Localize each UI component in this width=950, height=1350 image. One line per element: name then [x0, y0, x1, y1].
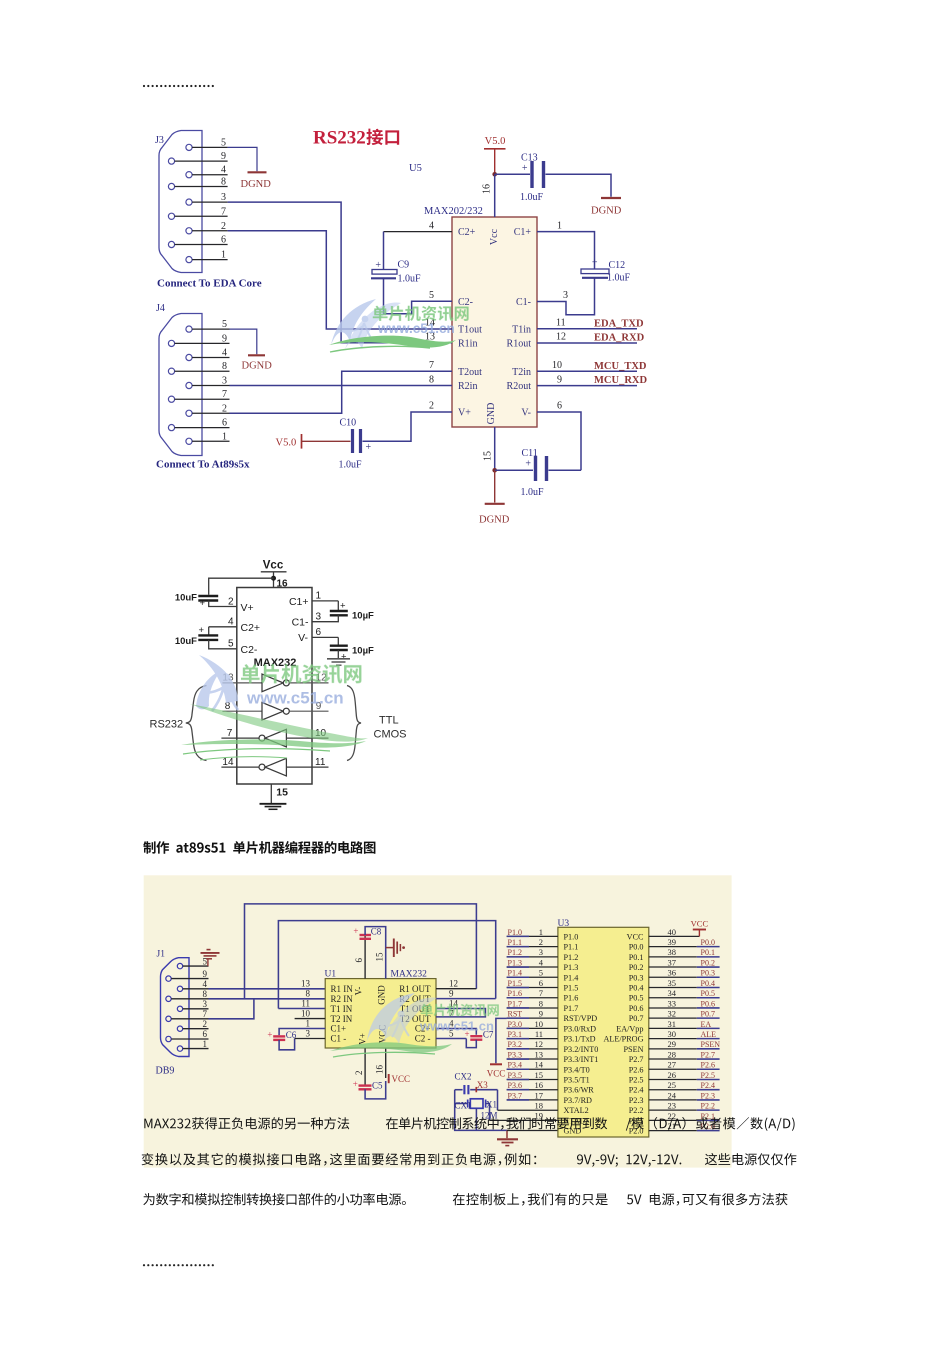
- svg-text:GND: GND: [377, 985, 387, 1005]
- svg-text:P1.0: P1.0: [508, 928, 522, 937]
- svg-text:P1.6: P1.6: [564, 994, 579, 1003]
- svg-text:www.c51.cn: www.c51.cn: [246, 689, 344, 708]
- svg-text:+: +: [522, 163, 528, 174]
- svg-text:1: 1: [222, 431, 227, 442]
- svg-text:+: +: [267, 1029, 272, 1039]
- net label P3.0 / U3 pin 10: [507, 1019, 558, 1029]
- svg-text:25: 25: [668, 1080, 677, 1090]
- svg-text:RS232: RS232: [150, 719, 184, 731]
- svg-text:P0.0: P0.0: [629, 943, 644, 952]
- svg-text:23: 23: [668, 1101, 677, 1111]
- svg-text:1: 1: [557, 220, 562, 231]
- svg-text:P3.3: P3.3: [508, 1050, 522, 1059]
- svg-text:R1out: R1out: [507, 338, 532, 349]
- svg-text:R2out: R2out: [507, 381, 532, 392]
- svg-text:P2.4: P2.4: [701, 1081, 715, 1090]
- net label P0.0 / U3 pin 39: [649, 937, 720, 947]
- svg-text:RST/VPD: RST/VPD: [564, 1014, 598, 1023]
- wire CX2 left loop: [455, 1090, 507, 1131]
- svg-text:12: 12: [449, 979, 458, 989]
- wire U1 pin9 (R2OUT): [436, 998, 496, 1000]
- svg-text:PSEN: PSEN: [623, 1045, 643, 1054]
- IC U1 MAX232: [301, 970, 459, 1049]
- svg-text:5: 5: [203, 956, 208, 966]
- svg-text:+: +: [200, 598, 206, 609]
- svg-text:36: 36: [668, 968, 677, 978]
- paragraph line 2: [142, 1153, 537, 1166]
- svg-text:1.0uF: 1.0uF: [607, 273, 631, 284]
- svg-text:P1.7: P1.7: [508, 999, 522, 1008]
- svg-text:15: 15: [375, 952, 385, 962]
- ground DGND (J4 pin5): [230, 329, 273, 371]
- svg-text:Vcc: Vcc: [263, 560, 284, 572]
- connector J3 (DB9, Connect To EDA Core): [155, 131, 262, 290]
- svg-text:9: 9: [539, 1009, 543, 1019]
- junction Vcc/pin16: [271, 576, 276, 581]
- svg-text:7: 7: [539, 988, 543, 998]
- svg-text:1.0uF: 1.0uF: [521, 487, 545, 498]
- capacitor C9 1.0uF: [371, 232, 421, 285]
- title RS232 interface: [313, 128, 399, 149]
- svg-text:P2.6: P2.6: [629, 1065, 644, 1074]
- svg-text:10uF: 10uF: [175, 636, 197, 647]
- svg-text:15: 15: [483, 451, 494, 461]
- svg-text:P0.2: P0.2: [629, 963, 644, 972]
- net label P3.6 / U3 pin 16: [507, 1080, 558, 1090]
- svg-text:2: 2: [222, 403, 227, 414]
- svg-text:7: 7: [203, 1009, 208, 1019]
- wire GND node to DGND: [494, 470, 496, 502]
- net label P0.3 / U3 pin 36: [649, 968, 720, 978]
- svg-text:DGND: DGND: [242, 361, 273, 372]
- svg-text:P1.3: P1.3: [564, 963, 579, 972]
- svg-text:C2+: C2+: [241, 622, 261, 634]
- svg-text:P2.7: P2.7: [701, 1050, 715, 1059]
- svg-text:P2.4: P2.4: [629, 1086, 644, 1095]
- svg-text:6: 6: [222, 418, 227, 429]
- svg-text:P1.6: P1.6: [508, 989, 522, 998]
- svg-text:P1.7: P1.7: [564, 1004, 579, 1013]
- net label P0.2 / U3 pin 37: [649, 957, 720, 967]
- svg-text:+: +: [353, 1079, 358, 1089]
- net label MCU_RXD (U5 pin9): [537, 375, 647, 386]
- svg-text:V5.0: V5.0: [276, 437, 297, 448]
- wire J4 pin3 to U5 pin8 (R2in): [230, 385, 453, 387]
- ground DGND (bottom): [479, 504, 510, 526]
- svg-text:11: 11: [535, 1029, 543, 1039]
- dotted separator top: [143, 85, 214, 87]
- svg-text:2: 2: [429, 401, 434, 412]
- svg-text:C1+: C1+: [514, 227, 532, 238]
- svg-text:RST: RST: [508, 1010, 523, 1019]
- ground DGND (C13): [591, 198, 622, 217]
- U3 pin 19 (XTAL1): [490, 1111, 558, 1121]
- net label P1.6 / U3 pin 7: [507, 988, 558, 998]
- capacitor C10 1.0uF: [339, 418, 372, 471]
- svg-text:P1.0: P1.0: [564, 932, 579, 941]
- connector J4 (DB9, Connect To At89s5x): [156, 303, 250, 471]
- svg-text:P0.4: P0.4: [701, 979, 715, 988]
- svg-text:11: 11: [301, 999, 310, 1009]
- svg-text:14: 14: [222, 757, 234, 768]
- U3 pin 40 (VCC): [649, 927, 700, 937]
- svg-text:P3.3/INT1: P3.3/INT1: [564, 1055, 599, 1064]
- net label EA / U3 pin 31: [649, 1019, 720, 1029]
- net label PSEN / U3 pin 29: [649, 1039, 720, 1049]
- svg-text:6: 6: [539, 978, 543, 988]
- power VCC (U1 pin16): [386, 1048, 410, 1084]
- svg-text:5: 5: [539, 968, 543, 978]
- svg-text:ALE: ALE: [701, 1030, 717, 1039]
- svg-text:VCC: VCC: [487, 1069, 506, 1079]
- capacitor 10uF (V-): [298, 627, 374, 662]
- svg-text:P3.2: P3.2: [508, 1040, 522, 1049]
- wire U5 pin4 (C2+): [384, 231, 453, 233]
- svg-text:+: +: [198, 625, 204, 636]
- svg-text:J4: J4: [156, 303, 165, 314]
- ground pin15 (schematic2): [260, 784, 289, 809]
- op-amp/transceiver U5 MAX202/232: [409, 163, 537, 427]
- svg-text:V+: V+: [458, 408, 471, 419]
- svg-text:TTL: TTL: [379, 715, 399, 727]
- svg-text:DGND: DGND: [591, 206, 622, 217]
- svg-text:GND: GND: [486, 403, 497, 425]
- svg-text:6: 6: [316, 627, 322, 638]
- svg-text:1: 1: [203, 1039, 208, 1049]
- svg-text:9: 9: [221, 151, 226, 162]
- svg-text:38: 38: [668, 947, 677, 957]
- svg-text:6: 6: [557, 401, 562, 412]
- svg-text:+: +: [592, 258, 598, 269]
- svg-text:10uF: 10uF: [175, 593, 197, 604]
- svg-text:P0.3: P0.3: [629, 973, 644, 982]
- svg-text:P3.1/TxD: P3.1/TxD: [564, 1035, 596, 1044]
- power VCC (U3 pin40): [691, 918, 709, 936]
- svg-text:XTAL2: XTAL2: [564, 1106, 589, 1115]
- svg-text:33: 33: [668, 998, 677, 1008]
- svg-text:R1in: R1in: [458, 338, 477, 349]
- net label P1.5 / U3 pin 6: [507, 978, 558, 988]
- earth ground (crystal): [497, 1130, 518, 1145]
- svg-text:Connect To EDA Core: Connect To EDA Core: [157, 278, 262, 290]
- svg-text:32: 32: [668, 1009, 677, 1019]
- svg-text:P1.5: P1.5: [508, 979, 522, 988]
- wire C13 to DGND: [546, 174, 612, 197]
- svg-text:8: 8: [539, 998, 543, 1008]
- net label P1.2 / U3 pin 3: [507, 947, 558, 957]
- svg-text:P3.6/WR: P3.6/WR: [564, 1086, 595, 1095]
- svg-text:T1 IN: T1 IN: [331, 1004, 353, 1014]
- brace TTL/CMOS (right): [347, 686, 361, 761]
- svg-text:3: 3: [221, 192, 226, 203]
- svg-text:T2in: T2in: [512, 367, 531, 378]
- svg-text:P3.1: P3.1: [508, 1030, 522, 1039]
- net label P2.5 / U3 pin 26: [649, 1070, 720, 1080]
- svg-text:P3.4/T0: P3.4/T0: [564, 1065, 590, 1074]
- svg-text:C9: C9: [398, 260, 410, 271]
- svg-text:P0.3: P0.3: [701, 969, 715, 978]
- svg-text:2: 2: [354, 1071, 364, 1076]
- svg-text:R2in: R2in: [458, 381, 477, 392]
- paragraph line 3: [143, 1193, 406, 1205]
- capacitor 10uF (C1+/C1-): [289, 591, 374, 629]
- svg-text:10µF: 10µF: [352, 646, 374, 657]
- svg-text:7: 7: [221, 206, 226, 217]
- svg-text:15: 15: [276, 787, 288, 799]
- svg-text:35: 35: [668, 978, 677, 988]
- svg-text:2: 2: [221, 221, 226, 232]
- svg-text:29: 29: [668, 1039, 677, 1049]
- svg-text:18: 18: [535, 1100, 544, 1110]
- schematic panel background: [144, 875, 732, 1167]
- svg-text:EDA_TXD: EDA_TXD: [594, 318, 644, 329]
- svg-text:30: 30: [668, 1029, 677, 1039]
- svg-text:VCC: VCC: [691, 918, 709, 928]
- svg-text:V-: V-: [298, 632, 308, 644]
- svg-text:EDA_RXD: EDA_RXD: [594, 333, 645, 344]
- svg-text:1: 1: [221, 250, 226, 261]
- inverter R2 (pins 14/11): [221, 757, 328, 776]
- svg-text:+: +: [341, 652, 347, 663]
- svg-text:C11: C11: [522, 448, 538, 459]
- svg-text:C12: C12: [609, 260, 626, 271]
- wire U5 pin3 (C1-) to C12: [537, 278, 595, 315]
- svg-text:P0.1: P0.1: [629, 953, 644, 962]
- paragraph line 1: [144, 1117, 349, 1129]
- net label P1.1 / U3 pin 2: [507, 937, 558, 947]
- svg-text:1: 1: [539, 927, 543, 937]
- wire U5 pin15 (GND): [494, 427, 496, 470]
- svg-text:T1in: T1in: [512, 325, 531, 336]
- svg-text:P1.2: P1.2: [564, 953, 579, 962]
- svg-text:www.c51.cn: www.c51.cn: [377, 321, 455, 336]
- svg-text:P0.2: P0.2: [701, 958, 715, 967]
- svg-text:13: 13: [535, 1049, 544, 1059]
- net label P2.6 / U3 pin 27: [649, 1060, 720, 1070]
- svg-text:2: 2: [539, 937, 543, 947]
- svg-text:V-: V-: [521, 408, 531, 419]
- svg-text:P1.1: P1.1: [508, 938, 522, 947]
- svg-text:10µF: 10µF: [352, 611, 374, 622]
- net label P3.5 / U3 pin 15: [507, 1070, 558, 1080]
- svg-text:1: 1: [316, 591, 322, 602]
- svg-text:7: 7: [227, 728, 233, 739]
- svg-text:14: 14: [535, 1060, 544, 1070]
- svg-text:16: 16: [277, 579, 289, 590]
- svg-text:R1 OUT: R1 OUT: [399, 984, 431, 994]
- wire U1 pin11 (T1IN) loop to U1 pin9 (R2OUT): [278, 921, 495, 1009]
- svg-text:10: 10: [535, 1019, 544, 1029]
- svg-text:P2.6: P2.6: [701, 1061, 715, 1070]
- earth ground (J1 pin5): [201, 950, 220, 967]
- wire J3 pin3 to U5 pin13 (R1in): [228, 202, 452, 343]
- svg-text:5: 5: [429, 290, 434, 301]
- heading: [143, 841, 375, 854]
- svg-text:4: 4: [228, 617, 234, 628]
- svg-text:40: 40: [668, 927, 677, 937]
- brace RS232 (left): [186, 686, 207, 761]
- svg-text:C2-: C2-: [458, 297, 473, 308]
- svg-text:P0.5: P0.5: [629, 994, 644, 1003]
- svg-text:C13: C13: [521, 153, 538, 164]
- junction (GND node): [492, 468, 497, 473]
- svg-text:9: 9: [222, 333, 227, 344]
- svg-text:1.0uF: 1.0uF: [520, 192, 544, 203]
- svg-text:3: 3: [563, 290, 568, 301]
- svg-text:C1-: C1-: [516, 297, 531, 308]
- junction (Vcc node): [492, 172, 497, 177]
- svg-text:V5.0: V5.0: [485, 136, 506, 147]
- power VCC (RST): [487, 1064, 506, 1078]
- capacitor C6: [267, 1029, 325, 1050]
- svg-text:2: 2: [203, 1019, 208, 1029]
- svg-text:P2.7: P2.7: [629, 1055, 644, 1064]
- svg-text:P0.0: P0.0: [701, 938, 715, 947]
- svg-text:8: 8: [221, 177, 226, 188]
- svg-text:U1: U1: [325, 970, 337, 980]
- svg-text:V+: V+: [358, 1033, 368, 1045]
- svg-text:17: 17: [535, 1090, 544, 1100]
- svg-text:V+: V+: [241, 602, 254, 614]
- svg-text:VCC: VCC: [392, 1074, 411, 1084]
- svg-text:R1 IN: R1 IN: [331, 984, 354, 994]
- capacitor C11 1.0uF: [495, 448, 581, 498]
- svg-text:MAX202/232: MAX202/232: [424, 206, 483, 217]
- net label MCU_TXD (U5 pin10): [537, 361, 647, 372]
- svg-text:34: 34: [668, 988, 677, 998]
- svg-text:1: 1: [306, 1019, 311, 1029]
- watermark (schematic 2): [196, 655, 238, 711]
- net label P2.3 / U3 pin 24: [649, 1090, 720, 1100]
- svg-text:MAX232: MAX232: [391, 970, 428, 980]
- net label P0.5 / U3 pin 34: [649, 988, 720, 998]
- svg-text:V-: V-: [354, 987, 364, 996]
- wire J1 pin4 to U1 pin13 (R1IN): [209, 988, 326, 990]
- svg-text:C1+: C1+: [331, 1024, 347, 1034]
- wire CX2/X3 to U3 pin18: [497, 1090, 499, 1111]
- svg-text:3: 3: [539, 947, 543, 957]
- svg-text:C1 -: C1 -: [331, 1034, 347, 1044]
- svg-text:P0.4: P0.4: [629, 984, 644, 993]
- svg-text:5: 5: [222, 319, 227, 330]
- svg-text:12M: 12M: [481, 1111, 498, 1121]
- svg-text:12: 12: [535, 1039, 544, 1049]
- wire T1IN to U1: [278, 1008, 325, 1010]
- svg-text:26: 26: [668, 1070, 677, 1080]
- svg-text:MCU_RXD: MCU_RXD: [594, 375, 647, 386]
- svg-text:1.0uF: 1.0uF: [398, 274, 422, 285]
- net label P3.1 / U3 pin 11: [507, 1029, 558, 1039]
- svg-text:T2 IN: T2 IN: [331, 1014, 353, 1024]
- U1 pin10 stub: [295, 1018, 326, 1020]
- svg-text:4: 4: [222, 348, 227, 359]
- svg-text:C1+: C1+: [289, 596, 309, 608]
- svg-text:10: 10: [552, 360, 562, 371]
- svg-text:Connect To At89s5x: Connect To At89s5x: [156, 459, 250, 471]
- svg-text:11: 11: [315, 757, 326, 768]
- svg-text:1.0uF: 1.0uF: [339, 460, 363, 471]
- net label P0.7 / U3 pin 32: [649, 1009, 720, 1019]
- svg-text:37: 37: [668, 957, 677, 967]
- capacitor C12 1.0uF: [581, 258, 631, 284]
- svg-text:P2.3: P2.3: [701, 1091, 715, 1100]
- connector J1 (DB9): [156, 950, 209, 1077]
- net label ALE / U3 pin 30: [649, 1029, 720, 1039]
- watermark (schematic 1): [331, 299, 401, 349]
- svg-text:24: 24: [668, 1090, 677, 1100]
- svg-text:VCC: VCC: [627, 932, 644, 941]
- capacitor 10uF (C2+/C2-): [175, 617, 260, 656]
- power V5.0 (C10): [276, 434, 351, 449]
- svg-text:R2 IN: R2 IN: [331, 994, 354, 1004]
- net label P3.7 / U3 pin 17: [507, 1090, 558, 1100]
- svg-text:P1.4: P1.4: [564, 973, 579, 982]
- svg-text:T1out: T1out: [458, 325, 482, 336]
- svg-text:U5: U5: [409, 163, 422, 174]
- svg-text:C2 -: C2 -: [415, 1034, 431, 1044]
- svg-text:P3.7: P3.7: [508, 1091, 522, 1100]
- wire ground to U3 pin20 (GND): [507, 1130, 558, 1132]
- net label P2.0 / U3 pin 21: [649, 1121, 720, 1131]
- wire U5 pin6 (V-) to C11: [537, 412, 581, 470]
- svg-text:P0.5: P0.5: [701, 989, 715, 998]
- wire J1 pin8 to U1 pin8 (R2IN): [209, 998, 326, 1000]
- watermark (schematic 3): [367, 993, 437, 1044]
- svg-text:P2.2: P2.2: [629, 1106, 644, 1115]
- net label P1.7 / U3 pin 8: [507, 998, 558, 1008]
- svg-text:DGND: DGND: [479, 515, 510, 526]
- earth ground (U1 pin15, sideways): [386, 939, 405, 958]
- svg-text:P1.2: P1.2: [508, 948, 522, 957]
- svg-text:P3.5/T1: P3.5/T1: [564, 1075, 590, 1084]
- svg-text:X3: X3: [477, 1080, 488, 1090]
- ground (C1- cap, schematic2): [327, 659, 350, 665]
- net label P2.1 / U3 pin 22: [649, 1111, 720, 1121]
- net label P3.2 / U3 pin 12: [507, 1039, 558, 1049]
- svg-text:U3: U3: [558, 919, 570, 929]
- svg-text:P0.7: P0.7: [629, 1014, 644, 1023]
- svg-text:6: 6: [203, 1029, 208, 1039]
- svg-text:PSEN: PSEN: [701, 1040, 721, 1049]
- svg-text:11: 11: [556, 318, 566, 329]
- wire U5 pin1 (C1+) to C12: [537, 232, 595, 269]
- capacitor C8 (U1 pin6 V-): [353, 926, 385, 979]
- svg-text:CX1: CX1: [455, 1100, 472, 1110]
- svg-text:P1.5: P1.5: [564, 984, 579, 993]
- svg-text:C10: C10: [340, 418, 357, 429]
- svg-text:28: 28: [668, 1049, 677, 1059]
- svg-text:8: 8: [429, 374, 434, 385]
- net label P3.4 / U3 pin 14: [507, 1060, 558, 1070]
- ground DGND (J3 pin5): [228, 147, 272, 190]
- svg-text:10: 10: [301, 1009, 311, 1019]
- svg-text:5: 5: [221, 137, 226, 148]
- svg-text:MCU_TXD: MCU_TXD: [594, 361, 647, 372]
- inverter T2 (pins 8/9): [222, 701, 328, 720]
- capacitor C7: [436, 1029, 494, 1048]
- svg-text:3: 3: [306, 1029, 311, 1039]
- net label P1.4 / U3 pin 5: [507, 968, 558, 978]
- svg-text:9: 9: [203, 969, 208, 979]
- U3 pin 18 (XTAL2): [498, 1100, 558, 1110]
- crystal X1 12M: [455, 1099, 498, 1131]
- svg-text:CX2: CX2: [455, 1072, 472, 1082]
- svg-text:+: +: [375, 260, 381, 271]
- U5 pin numbers: [425, 184, 568, 461]
- svg-text:6: 6: [354, 958, 364, 963]
- svg-text:6: 6: [221, 235, 226, 246]
- svg-text:16: 16: [535, 1080, 544, 1090]
